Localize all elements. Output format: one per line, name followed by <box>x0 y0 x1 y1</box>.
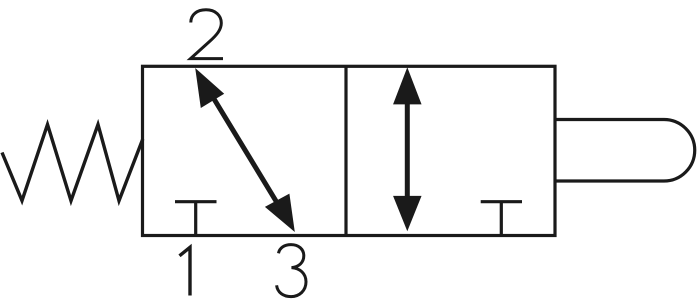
flow path arrow 2-3 (left square), shaft <box>211 94 279 206</box>
port label 3 <box>277 245 306 297</box>
port label 1 <box>180 247 191 295</box>
arrowhead at port 2 <box>195 68 224 108</box>
plunger actuator (right) <box>555 120 695 182</box>
spring return (left actuator) <box>2 125 143 201</box>
valve body frame (two-position envelope) <box>143 66 556 235</box>
port label 2 <box>191 10 224 59</box>
arrowhead down (right square) <box>393 196 422 231</box>
arrowhead at port 3 <box>265 194 295 232</box>
position divider <box>344 66 347 235</box>
blocked port (T mark, right square) <box>481 202 522 236</box>
blocked port 1 (T mark, left square) <box>175 202 217 236</box>
flow path arrow (right square), shaft <box>405 101 410 198</box>
arrowhead up (right square) <box>393 67 422 104</box>
